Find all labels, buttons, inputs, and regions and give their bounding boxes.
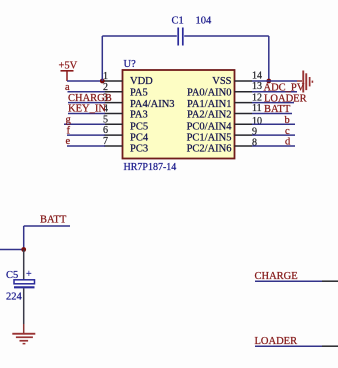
- svg-text:PA0/AIN0: PA0/AIN0: [187, 88, 232, 99]
- wire to left edge: [0, 249, 24, 251]
- svg-text:104: 104: [196, 16, 213, 27]
- pin 8 PC2/AIN6: [187, 138, 257, 155]
- svg-text:e: e: [66, 136, 71, 147]
- net b wire (pin 10): [252, 123, 295, 125]
- net f wire (pin 6): [67, 134, 105, 136]
- wire BATT vertical: [23, 226, 25, 250]
- net label g: [66, 115, 72, 126]
- svg-text:C1: C1: [172, 16, 184, 27]
- pin 7 PC3: [103, 136, 148, 154]
- svg-text:14: 14: [252, 70, 262, 81]
- pin 10 PC0/AIN4: [187, 116, 262, 133]
- svg-text:10: 10: [252, 116, 262, 127]
- capacitor C1: [178, 28, 183, 46]
- net e wire (pin 7): [67, 145, 105, 147]
- pin 2 PA5: [103, 82, 148, 99]
- wire C1 top left: [102, 35, 177, 37]
- wire BATT horizontal: [24, 225, 70, 227]
- net label CHARGB: [68, 93, 112, 104]
- pin 5 PC5: [103, 114, 148, 132]
- svg-text:PC1/AIN5: PC1/AIN5: [187, 132, 232, 143]
- net label a: [65, 82, 70, 93]
- wire pin 14 to ground: [252, 80, 297, 82]
- net KEY_IN wire (pin 4): [68, 113, 105, 115]
- net ADC_PV wire (pin 13): [252, 91, 297, 93]
- svg-text:+: +: [26, 269, 32, 280]
- svg-text:KEY_IN: KEY_IN: [68, 104, 106, 115]
- value HR7P187-14: [124, 162, 177, 173]
- svg-text:PA2/AIN2: PA2/AIN2: [187, 109, 232, 120]
- net LOADER wire (pin 12): [252, 102, 294, 104]
- net label f: [67, 125, 71, 136]
- node junction BATT/C5: [21, 247, 26, 252]
- svg-text:a: a: [65, 82, 70, 93]
- svg-text:f: f: [67, 125, 71, 136]
- pin 9 PC1/AIN5: [187, 127, 257, 144]
- svg-text:PA3: PA3: [130, 109, 148, 120]
- net label KEY_IN: [68, 104, 106, 115]
- net label c: [285, 126, 290, 137]
- svg-text:11: 11: [252, 103, 262, 114]
- net d wire (pin 8): [252, 145, 295, 147]
- value 104: [196, 16, 213, 27]
- wire C1 right leg: [268, 36, 270, 81]
- wire C1 top right: [184, 35, 269, 37]
- node junction on pin 1: [100, 79, 105, 84]
- svg-text:+5V: +5V: [59, 61, 78, 72]
- wire LOADER: [255, 345, 338, 347]
- ground (right, rotated): [297, 71, 313, 93]
- svg-text:VDD: VDD: [130, 76, 153, 87]
- net g wire (pin 5): [64, 123, 105, 125]
- svg-text:LOADER: LOADER: [255, 336, 298, 347]
- net label BATT (bottom left): [40, 215, 67, 226]
- svg-text:PC0/AIN4: PC0/AIN4: [187, 121, 233, 132]
- net BATT wire (pin 11): [252, 113, 292, 115]
- svg-text:ADC_PV: ADC_PV: [264, 83, 305, 94]
- svg-text:HR7P187-14: HR7P187-14: [124, 162, 177, 173]
- pin 4 PA3: [103, 104, 148, 121]
- designator C1: [172, 16, 184, 27]
- svg-text:PA5: PA5: [130, 88, 148, 99]
- svg-text:8: 8: [252, 138, 257, 149]
- pin 12 PA1/AIN1: [187, 92, 262, 110]
- pin 11 PA2/AIN2: [187, 103, 262, 121]
- svg-text:12: 12: [252, 92, 262, 103]
- node junction on pin 14: [266, 79, 271, 84]
- pin 6 PC4: [103, 125, 149, 143]
- power +5V: [59, 61, 78, 82]
- pin 14 VSS: [212, 70, 262, 87]
- net c wire (pin 9): [252, 134, 295, 136]
- svg-text:PC5: PC5: [130, 121, 148, 132]
- pin 1 VDD: [103, 71, 153, 87]
- svg-text:BATT: BATT: [264, 104, 291, 115]
- svg-text:PC3: PC3: [130, 143, 148, 154]
- pin 13 PA0/AIN0: [187, 81, 262, 98]
- net label BATT (pin 11): [264, 104, 291, 115]
- svg-text:U?: U?: [124, 59, 137, 70]
- capacitor C5 (polarized): [14, 269, 35, 287]
- wire C5 top pin: [23, 250, 25, 280]
- svg-text:PC2/AIN6: PC2/AIN6: [187, 143, 232, 154]
- svg-text:b: b: [285, 115, 290, 126]
- net label CHARGE: [255, 271, 298, 282]
- svg-text:VSS: VSS: [212, 76, 231, 87]
- ground (bottom left): [12, 324, 35, 344]
- designator U?: [124, 59, 137, 70]
- svg-text:LOADER: LOADER: [264, 93, 307, 104]
- svg-text:CHARGB: CHARGB: [68, 93, 112, 104]
- net a wire (pin 2): [68, 91, 106, 93]
- net label LOADER (bottom right): [255, 336, 298, 347]
- net label d: [285, 137, 291, 148]
- svg-text:g: g: [66, 115, 72, 126]
- wire C1 left leg: [101, 36, 103, 81]
- svg-text:CHARGE: CHARGE: [255, 271, 298, 282]
- svg-text:224: 224: [6, 292, 23, 303]
- wire CHARGE: [255, 280, 338, 282]
- svg-text:13: 13: [252, 81, 262, 92]
- svg-text:PC4: PC4: [130, 132, 149, 143]
- svg-text:BATT: BATT: [40, 215, 67, 226]
- wire +5V to pin 1: [67, 80, 105, 82]
- net label LOADER (pin 12): [264, 93, 307, 104]
- wire C5 bottom pin: [23, 288, 25, 324]
- net label b: [285, 115, 290, 126]
- svg-text:9: 9: [252, 127, 257, 138]
- net label ADC_PV: [264, 83, 305, 94]
- IC U? body (HR7P187-14): [123, 70, 235, 159]
- net label e: [66, 136, 71, 147]
- designator C5: [6, 270, 18, 281]
- svg-text:d: d: [285, 137, 291, 148]
- net CHARGB wire (pin 3): [68, 102, 105, 104]
- pin 3 PA4/AIN3: [103, 93, 175, 111]
- value 224: [6, 292, 23, 303]
- svg-text:c: c: [285, 126, 290, 137]
